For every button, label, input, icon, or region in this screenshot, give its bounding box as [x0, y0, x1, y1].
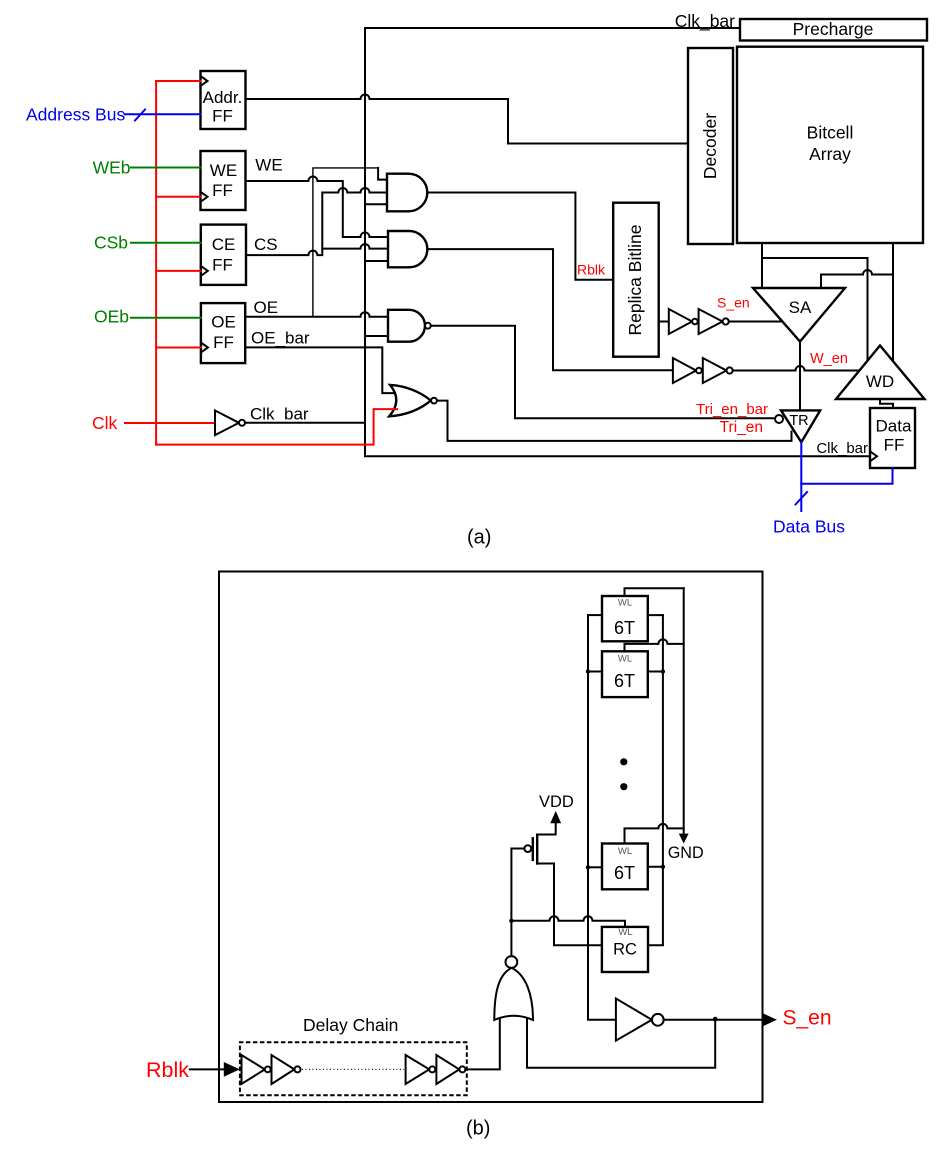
wire Replica Bitline output to S_en inverter chain	[659, 321, 669, 323]
svg-text:Clk_bar: Clk_bar	[250, 405, 309, 424]
wire PMOS source to VDD	[537, 823, 556, 835]
svg-text:OE: OE	[211, 313, 236, 332]
node Address Bus slash	[135, 110, 145, 121]
svg-text:VDD: VDD	[539, 793, 574, 811]
bitcell array box	[737, 47, 923, 243]
wire WD output to Data FF	[880, 399, 893, 408]
svg-text:FF: FF	[213, 333, 234, 352]
wire PMOS drain down to RC left input	[537, 864, 602, 946]
wire Clk input to inverter	[125, 422, 215, 424]
svg-text:S_en: S_en	[717, 295, 750, 311]
svg-text:CSb: CSb	[94, 233, 128, 253]
svg-text:RC: RC	[613, 941, 637, 959]
wire bitline stub 6T1	[588, 614, 602, 616]
svg-text:Rblk: Rblk	[146, 1058, 189, 1082]
wire Clk branch to WE FF clock	[156, 196, 200, 198]
svg-text:6T: 6T	[614, 618, 635, 638]
svg-text:WE: WE	[255, 156, 282, 175]
transistor PMOS gate bar	[532, 838, 534, 860]
wire AND2 output down to W_en inverters	[427, 249, 673, 370]
amplifier SA	[753, 288, 845, 342]
wire bitbar stub 6T2	[648, 671, 663, 673]
wire NAND1 output to Tri_en_bar rail	[431, 326, 775, 419]
svg-text:Bitcell: Bitcell	[807, 123, 854, 143]
wire Data Bus from TR and Data FF	[801, 442, 892, 484]
inverter Clk_bar generator	[215, 405, 365, 436]
flip-flop Data FF	[870, 408, 915, 468]
svg-text:WD: WD	[866, 372, 894, 391]
node junction dot NOR output	[509, 919, 513, 923]
svg-text:Rblk: Rblk	[577, 262, 606, 278]
wire bitline A from array to SA	[761, 243, 763, 288]
wire Clk_bar inverter output to vertical rail	[245, 422, 365, 424]
svg-text:Clk_bar: Clk_bar	[816, 440, 868, 457]
wire Clk branch to OE FF clock	[156, 347, 201, 349]
wire AND1 top input drop	[378, 168, 387, 180]
wire Clk_bar main vertical (x=365) and bottom rail to Data FF clock	[365, 28, 870, 456]
wire CS to AND1 mid input (hops over x=342.8 and x=365)	[322, 188, 387, 193]
nor-gate NOR1	[389, 385, 431, 416]
nand-gate NAND1	[388, 310, 425, 342]
precharge box	[740, 19, 927, 41]
svg-text:WL: WL	[618, 654, 632, 665]
green input wires	[131, 168, 201, 318]
inverter output stage	[616, 999, 652, 1041]
wire OEb input	[131, 317, 201, 319]
blue buses	[125, 110, 893, 512]
flip-flop WE FF	[201, 151, 246, 210]
wire Clk_bar top rail to Precharge	[365, 27, 740, 29]
transistor PMOS channel bar	[536, 835, 538, 864]
svg-text:Clk: Clk	[92, 413, 118, 433]
wire bitbar stub 6T3	[648, 866, 663, 868]
svg-text:Data Bus: Data Bus	[773, 517, 845, 537]
wire WEb input	[131, 167, 201, 169]
node Data Bus slash	[796, 492, 808, 505]
wire S_en to SA	[729, 321, 783, 323]
svg-text:SA: SA	[789, 298, 812, 317]
wire CSb input	[131, 242, 201, 244]
svg-text:WEb: WEb	[93, 158, 131, 178]
svg-text:6T: 6T	[614, 671, 635, 691]
wire CS output: right, hop over x=312.9, up at x=322.3	[246, 193, 322, 256]
wire bitline stub 6T3	[588, 866, 602, 868]
wire 6T3 wordline to GND rail (hop over x=662.9)	[625, 824, 684, 844]
svg-text:FF: FF	[212, 255, 233, 274]
FIGURE-A	[201, 11, 928, 549]
svg-text:Precharge: Precharge	[793, 19, 874, 39]
svg-text:Tri_en_bar: Tri_en_bar	[696, 401, 768, 418]
wire Address Bus input	[125, 113, 201, 115]
ground GND arrow	[679, 834, 689, 844]
svg-text:(a): (a)	[467, 527, 491, 549]
wire S_en output line	[664, 1019, 763, 1021]
wire Rblk input with arrowhead	[190, 1068, 225, 1070]
svg-text:S_en: S_en	[783, 1007, 832, 1030]
wire Data Bus stub down	[800, 484, 802, 511]
svg-text:Tri_en: Tri_en	[720, 419, 763, 436]
svg-text:GND: GND	[668, 844, 704, 862]
tristate TR	[781, 410, 820, 442]
svg-text:WL: WL	[618, 598, 632, 609]
svg-text:FF: FF	[212, 107, 233, 126]
wire NORB output up to PMOS gate	[510, 921, 512, 956]
wire bitbar vertical	[648, 615, 663, 945]
wire OE output to NAND top input (hop over x=365)	[246, 312, 388, 316]
inverter W_en second	[703, 358, 727, 383]
flip-flop OE FF	[201, 303, 245, 363]
svg-text:(b): (b)	[466, 1118, 490, 1140]
svg-text:6T: 6T	[614, 863, 635, 883]
bitcell 6T number 3	[602, 844, 648, 890]
svg-text:Delay Chain: Delay Chain	[303, 1015, 398, 1035]
decoder box	[688, 48, 733, 244]
inverter S_en first	[669, 309, 692, 334]
bitcell RC replica	[602, 927, 648, 972]
wire bitline B from array down to WD right	[892, 243, 894, 361]
wire feedback from S_en to NOR right input	[527, 1018, 715, 1068]
nor-gate NORB	[494, 968, 533, 1020]
wire Clk bottom rail to NOR input	[156, 409, 397, 445]
red clock tree	[125, 81, 397, 445]
wire Clk vertical rail	[155, 81, 157, 445]
flip-flop Addr FF	[201, 71, 246, 129]
inverter W_en first	[673, 358, 696, 383]
wire dotted continuation	[302, 1068, 404, 1070]
and-gate AND1	[387, 174, 427, 212]
wire OE_bar output to NOR top input	[246, 347, 398, 393]
wire bitline stub 6T2	[588, 671, 602, 673]
svg-text:Array: Array	[809, 144, 851, 164]
replica bitline box	[613, 203, 659, 357]
svg-text:Addr.: Addr.	[203, 88, 243, 107]
inverter delay A1	[242, 1055, 265, 1084]
svg-text:Clk_bar: Clk_bar	[675, 11, 735, 32]
and-gate AND2	[388, 231, 427, 267]
wire 6T1 wordline to GND rail	[625, 588, 684, 596]
wire bitline A branch to WD left	[762, 258, 868, 361]
wire 6T2 wordline to GND rail (hop over x=662.9)	[625, 639, 684, 651]
svg-text:Replica Bitline: Replica Bitline	[625, 225, 645, 336]
svg-text:OEb: OEb	[94, 307, 129, 327]
driver WD	[836, 346, 925, 400]
wire Clk_bar stub to AND1 bottom input	[365, 203, 387, 205]
svg-text:WE: WE	[210, 161, 237, 180]
svg-text:WL: WL	[618, 846, 632, 857]
svg-text:CS: CS	[254, 235, 278, 254]
inverter delay A2	[272, 1055, 295, 1084]
wire W_en to WD (hop over SA output x=800)	[733, 366, 858, 371]
FIGURE-B	[146, 572, 832, 1140]
inverter delay B2	[436, 1055, 459, 1084]
wire bitline vertical to inverter input	[588, 615, 616, 1020]
wire AND1 output to Replica Bitline (Rblk)	[427, 193, 613, 280]
wire delay chain output to NOR left input	[465, 1018, 499, 1069]
bitcell 6T number 1	[602, 596, 648, 641]
wire OE feed (thin) from OE line up to AND1 top input	[313, 168, 378, 317]
wire WE output: right, hop over x=312.9, down at x=342.8, to AND2 input (hop over x=365)	[246, 177, 388, 238]
wire bitbar stub 6T1	[648, 614, 663, 616]
wire Clk branch to Addr FF clock	[156, 80, 200, 82]
flip-flop CE FF	[201, 225, 246, 285]
wire WL row to RC (hops over x=554 and x=588)	[511, 916, 625, 927]
inverter delay B1	[406, 1055, 430, 1084]
node junction dot on S_en line	[713, 1017, 718, 1022]
wire Clk_bar stub to AND2 bottom input	[365, 260, 388, 262]
wire NOR1 output to Tri_en rail	[437, 401, 792, 441]
wire CS to AND2 mid input (hop over x=365)	[322, 244, 388, 249]
power VDD arrow	[550, 811, 561, 823]
transistor PMOS gate bubble	[524, 845, 531, 852]
wire Addr FF output to Decoder (hop over x=365)	[246, 95, 688, 144]
svg-text:Decoder: Decoder	[700, 113, 720, 179]
svg-text:OE: OE	[254, 298, 279, 317]
bitcell 6T number 2	[602, 651, 648, 697]
inverter S_en second	[699, 309, 723, 334]
svg-text:Data: Data	[876, 417, 912, 436]
svg-text:W_en: W_en	[810, 351, 848, 367]
svg-text:FF: FF	[212, 181, 233, 200]
svg-text:Address Bus: Address Bus	[26, 104, 125, 124]
node S_en output arrowhead	[763, 1013, 777, 1026]
wire Clk branch to CE FF clock	[156, 270, 201, 272]
wire Clk_bar stub to NAND bottom input	[365, 335, 388, 337]
svg-text:OE_bar: OE_bar	[251, 329, 310, 348]
wire bitline B branch to SA (hop over x=867.5)	[821, 270, 893, 288]
svg-text:CE: CE	[212, 235, 236, 254]
node ellipsis dots	[620, 758, 627, 765]
wire GND rail down	[683, 588, 685, 834]
wire SA output to TR	[799, 342, 801, 411]
svg-text:FF: FF	[884, 436, 905, 455]
svg-text:WL: WL	[618, 927, 632, 938]
delay chain dashed box	[240, 1042, 467, 1095]
outer box figure b	[219, 572, 763, 1103]
svg-text:TR: TR	[789, 413, 808, 429]
